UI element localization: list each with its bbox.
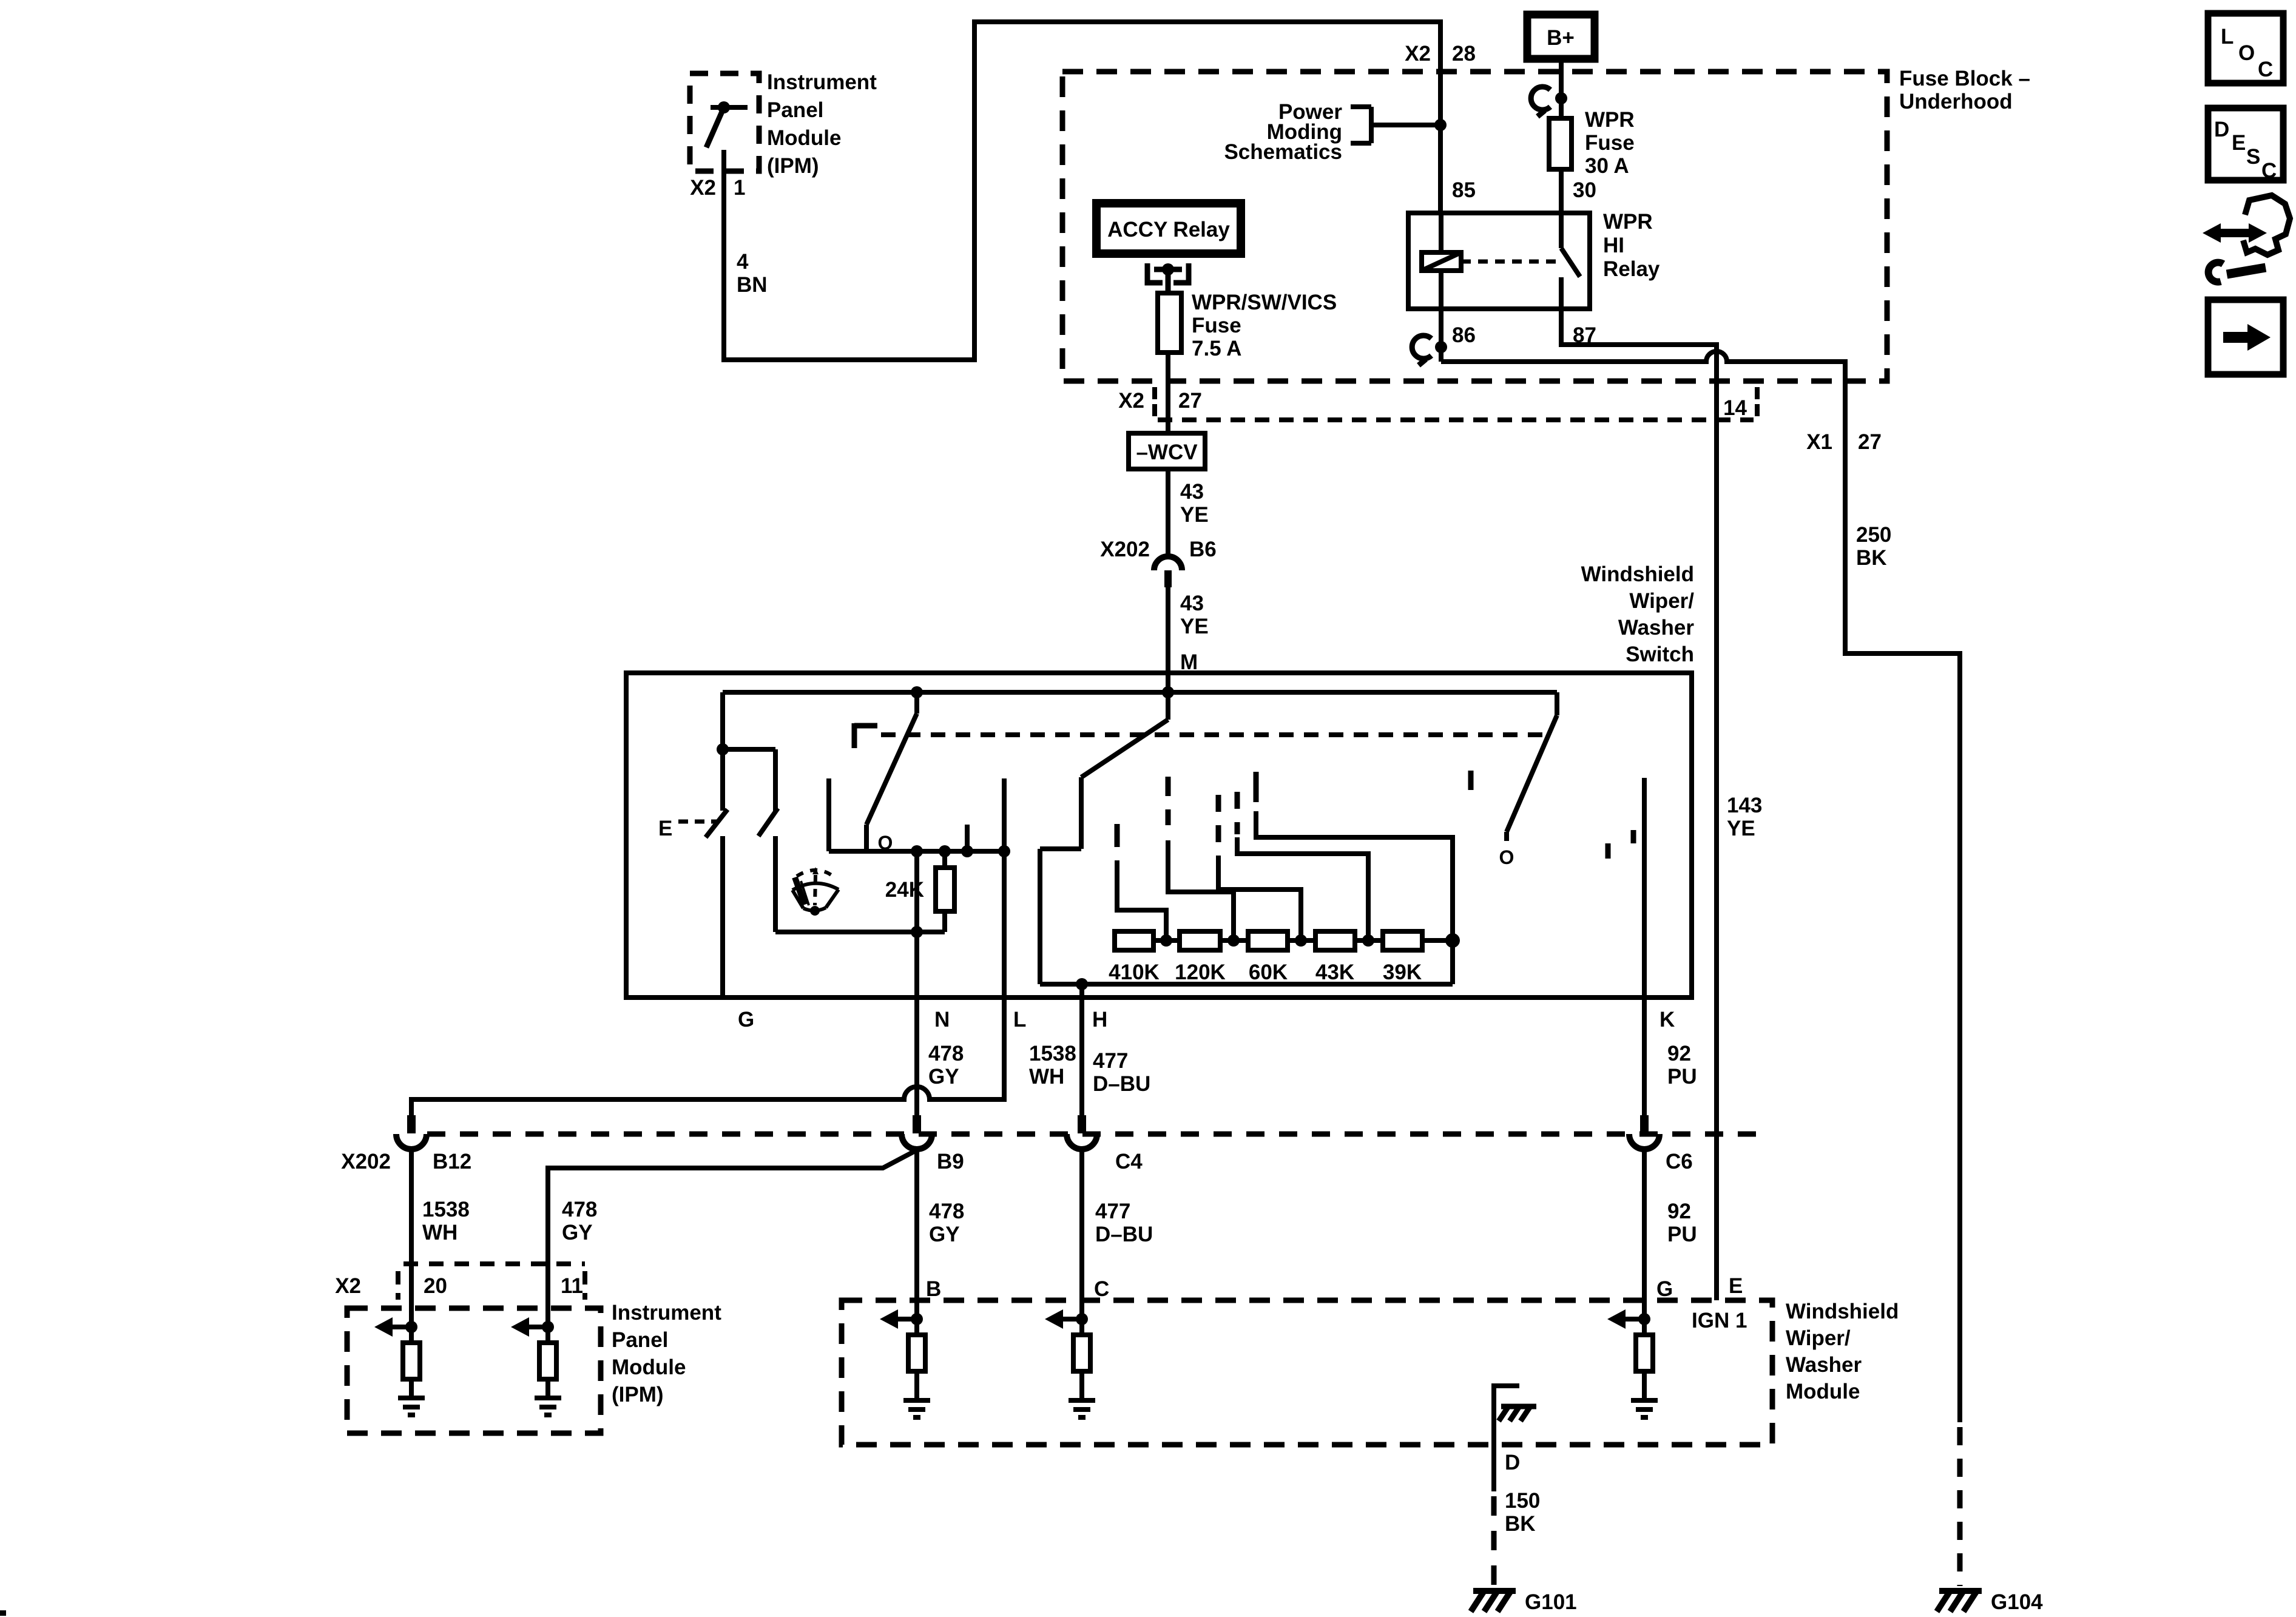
delay resistor ladder: [1115, 931, 1460, 984]
svg-text:L: L: [2221, 25, 2234, 49]
svg-text:S: S: [2246, 145, 2260, 169]
svg-text:N: N: [934, 1008, 950, 1031]
svg-text:B9: B9: [937, 1150, 964, 1173]
svg-text:30 A: 30 A: [1585, 154, 1629, 178]
svg-text:(IPM): (IPM): [612, 1383, 664, 1406]
wire L inside box: [1002, 778, 1007, 998]
wire fuse to -WCV: [1166, 353, 1170, 433]
svg-text:Washer: Washer: [1786, 1353, 1862, 1377]
label 1538 WH: [422, 1198, 470, 1244]
wire -WCV to X202 B6: [1166, 469, 1170, 555]
delay contact position 5: [1256, 772, 1453, 940]
page corner mark: [0, 1610, 6, 1616]
module input C: [1045, 1300, 1095, 1417]
svg-text:Panel: Panel: [767, 98, 823, 122]
module pin labels: [926, 1274, 1747, 1332]
svg-text:BK: BK: [1505, 1512, 1536, 1536]
power moding schematics bracket: [1351, 107, 1440, 143]
-WCV box: [1129, 433, 1205, 469]
svg-text:39K: 39K: [1383, 960, 1422, 984]
windshield wiper/washer switch box: [626, 673, 1692, 998]
wire K to C6: [1642, 998, 1647, 1119]
connector B9: [913, 1115, 921, 1133]
svg-text:24K: 24K: [885, 878, 924, 902]
svg-text:Fuse Block –: Fuse Block –: [1899, 67, 2030, 90]
label 478 GY: [562, 1198, 597, 1244]
svg-text:43: 43: [1180, 592, 1204, 615]
wire relay 87 output to 143 YE: [1561, 309, 1717, 1300]
wire B+ to WPR fuse: [1559, 59, 1564, 118]
svg-text:C: C: [2261, 159, 2277, 183]
svg-text:YE: YE: [1180, 615, 1209, 638]
label D 150 BK: [1505, 1451, 1540, 1536]
svg-text:Windshield: Windshield: [1786, 1300, 1899, 1323]
labels X2 27 14: [1118, 389, 1747, 420]
legend forward arrow box: [2208, 300, 2283, 374]
node on X2-28 wire: [1434, 119, 1447, 131]
svg-text:E: E: [658, 817, 672, 840]
wire C6 to module pin G: [1642, 1149, 1647, 1300]
N tap: [914, 851, 919, 932]
connector C6: [1640, 1115, 1649, 1133]
svg-text:X202: X202: [1100, 538, 1150, 561]
svg-text:C: C: [2258, 58, 2273, 81]
delay contact position 3: [1218, 795, 1301, 940]
svg-text:477: 477: [1093, 1049, 1128, 1073]
svg-text:G104: G104: [1991, 1590, 2043, 1614]
svg-text:30: 30: [1573, 178, 1596, 202]
svg-text:X2: X2: [690, 176, 716, 200]
label Windshield Wiper/Washer Switch: [1581, 562, 1695, 666]
svg-text:4: 4: [737, 250, 749, 274]
svg-text:HI: HI: [1603, 234, 1624, 257]
svg-text:WPR: WPR: [1585, 108, 1635, 132]
svg-text:O: O: [2238, 41, 2255, 65]
mist blade from bus: [866, 692, 917, 851]
svg-text:Wiper/: Wiper/: [1786, 1326, 1851, 1350]
svg-text:Washer: Washer: [1618, 616, 1695, 640]
svg-text:478: 478: [928, 1042, 964, 1065]
wire X2 28 to relay pin 85: [1438, 72, 1443, 213]
svg-text:Instrument: Instrument: [612, 1301, 721, 1325]
relay actuator dashed link: [1461, 260, 1557, 264]
pin 14 stub: [1755, 387, 1760, 416]
switch pin labels: [738, 1008, 1675, 1031]
delay contact position 2: [1168, 777, 1234, 940]
svg-text:Switch: Switch: [1626, 643, 1694, 666]
mechanical coupling dashed line: [854, 723, 1544, 748]
resistor 24K: [942, 851, 947, 868]
svg-text:G101: G101: [1525, 1590, 1577, 1614]
WPR fuse 30 A: [1549, 118, 1572, 169]
H rail: [1040, 982, 1453, 987]
labels X1 27: [1806, 430, 1882, 454]
svg-text:YE: YE: [1180, 503, 1209, 527]
svg-text:1: 1: [734, 176, 745, 200]
svg-text:BK: BK: [1856, 546, 1887, 570]
labels X2 28 at fuse block entry: [1405, 42, 1476, 66]
svg-text:G: G: [1656, 1277, 1673, 1301]
IPM input 20 load: [374, 1308, 425, 1415]
svg-text:92: 92: [1667, 1042, 1691, 1065]
svg-text:X1: X1: [1806, 430, 1832, 454]
svg-text:D–BU: D–BU: [1093, 1072, 1150, 1096]
module input B: [880, 1300, 930, 1417]
pin 27 stub: [1152, 387, 1157, 416]
svg-text:Module: Module: [612, 1355, 686, 1379]
svg-text:27: 27: [1858, 430, 1882, 454]
svg-text:H: H: [1092, 1008, 1107, 1031]
label Fuse Block - Underhood: [1899, 67, 2030, 113]
low speed contact row: [829, 849, 1004, 854]
label 43 YE: [1180, 480, 1209, 527]
svg-text:1538: 1538: [422, 1198, 470, 1221]
wire B9 to module pin B: [914, 1149, 919, 1300]
svg-text:86: 86: [1452, 323, 1476, 347]
svg-text:D: D: [2214, 118, 2229, 141]
svg-text:478: 478: [929, 1200, 964, 1223]
wash contact blade left (G side): [720, 749, 725, 811]
wire N inside box: [914, 932, 919, 998]
label 143 YE: [1727, 794, 1762, 840]
svg-text:Instrument: Instrument: [767, 70, 877, 94]
svg-text:27: 27: [1178, 389, 1202, 413]
wire H to C4: [1079, 998, 1084, 1119]
svg-text:B+: B+: [1547, 26, 1575, 50]
wire IPM pin 11 branch to B9: [548, 1151, 915, 1308]
connector X202 B12: [407, 1115, 416, 1133]
svg-text:Module: Module: [767, 126, 841, 150]
label M: [1180, 650, 1198, 674]
instrument panel module (IPM) source dashed box: [690, 73, 759, 171]
labels 85 30: [1452, 178, 1596, 202]
B+ box: [1527, 15, 1595, 59]
svg-text:477: 477: [1095, 1200, 1130, 1223]
wire labels above X202: [928, 1042, 1697, 1096]
svg-text:85: 85: [1452, 178, 1476, 202]
label WPR HI Relay: [1603, 210, 1660, 281]
wire K inside box: [1642, 778, 1647, 998]
svg-text:X2: X2: [1118, 389, 1144, 413]
legend LOC box: [2208, 13, 2283, 83]
svg-text:D: D: [1505, 1451, 1520, 1474]
svg-text:B6: B6: [1189, 538, 1217, 561]
wire fuse to relay pin 30: [1559, 169, 1564, 213]
svg-text:C6: C6: [1666, 1150, 1693, 1173]
wire C4 to module pin C: [1079, 1149, 1084, 1300]
delay blade: [1507, 692, 1557, 841]
label Power Moding Schematics: [1224, 100, 1342, 164]
svg-text:K: K: [1660, 1008, 1675, 1031]
switch common bus: [723, 690, 1557, 695]
IPM internal switch: [706, 101, 748, 171]
svg-text:410K: 410K: [1109, 960, 1160, 984]
svg-text:Relay: Relay: [1603, 257, 1660, 281]
svg-text:X2: X2: [335, 1274, 361, 1298]
ACCY relay box: [1096, 203, 1241, 254]
labels 410K 120K 60K 43K 39K: [1109, 960, 1422, 984]
svg-text:478: 478: [562, 1198, 597, 1221]
connector row X202 dotted line: [427, 1132, 1760, 1137]
svg-text:D–BU: D–BU: [1095, 1223, 1153, 1246]
relay coil: [1422, 252, 1461, 271]
svg-text:G: G: [738, 1008, 754, 1031]
fuse block underhood dashed box: [1062, 72, 1887, 381]
wire L to B12 with hop over N: [411, 998, 1004, 1119]
svg-text:Windshield: Windshield: [1581, 562, 1694, 586]
svg-text:Module: Module: [1786, 1380, 1860, 1403]
svg-text:X2: X2: [1405, 42, 1431, 66]
svg-text:150: 150: [1505, 1489, 1540, 1513]
label 4 BN: [737, 250, 768, 297]
ground G104: [1937, 1591, 1982, 1612]
high speed blade: [1040, 692, 1168, 984]
svg-text:C: C: [1094, 1277, 1109, 1301]
wire N to B9: [914, 998, 919, 1119]
wire B12 to IPM pin 20: [409, 1149, 414, 1308]
fuse block X2 connector row: [1158, 417, 1754, 422]
ground G101: [1471, 1591, 1516, 1612]
svg-text:43: 43: [1180, 480, 1204, 504]
IPM X2 pin header dotted box: [398, 1264, 585, 1300]
wash contact blade right: [758, 808, 778, 836]
WPR HI relay box: [1408, 213, 1590, 309]
connector X2 pin 1 labels: [690, 176, 745, 200]
legend DESC box: [2208, 108, 2283, 180]
svg-text:Wiper/: Wiper/: [1629, 589, 1694, 613]
svg-text:WH: WH: [422, 1221, 458, 1244]
module input G: [1607, 1300, 1658, 1417]
svg-text:GY: GY: [929, 1223, 960, 1246]
svg-text:Underhood: Underhood: [1899, 90, 2013, 113]
svg-text:X202: X202: [341, 1150, 391, 1173]
svg-text:ACCY Relay: ACCY Relay: [1107, 218, 1230, 241]
contact tick near delay blade: [1468, 771, 1474, 790]
wire 86 to X1-27 with hop over 143 wire: [1441, 351, 1960, 1422]
label 250 BK: [1856, 523, 1891, 570]
label E and dashed link: [658, 817, 672, 840]
instrument panel module (IPM) bottom dashed box: [347, 1308, 601, 1433]
label Instrument Panel Module (IPM): [767, 70, 877, 178]
svg-text:WPR/SW/VICS: WPR/SW/VICS: [1192, 291, 1337, 314]
label O delay contact: [1499, 846, 1514, 868]
svg-text:28: 28: [1452, 42, 1476, 66]
svg-text:14: 14: [1723, 396, 1747, 420]
svg-text:C4: C4: [1115, 1150, 1143, 1173]
wiper park icon: [792, 867, 839, 916]
svg-text:Panel: Panel: [612, 1328, 668, 1352]
svg-text:143: 143: [1727, 794, 1762, 817]
labels 86 87: [1452, 323, 1596, 347]
ACCY relay contact clip: [1147, 263, 1189, 293]
connector C4: [1078, 1115, 1086, 1133]
svg-text:92: 92: [1667, 1200, 1691, 1223]
label O low contact: [878, 832, 893, 854]
svg-text:YE: YE: [1727, 817, 1755, 840]
svg-text:(IPM): (IPM): [767, 154, 819, 178]
svg-text:B: B: [926, 1277, 941, 1301]
svg-text:Fuse: Fuse: [1585, 131, 1635, 155]
svg-text:60K: 60K: [1249, 960, 1288, 984]
delay contact position 4: [1237, 792, 1368, 940]
svg-text:GY: GY: [562, 1221, 593, 1244]
relay switch: [1561, 213, 1580, 309]
windshield wiper/washer module dashed box: [842, 1300, 1772, 1445]
delay contact position 1: [1117, 824, 1166, 940]
svg-text:11: 11: [561, 1274, 583, 1298]
fuse clip at 86: [1412, 336, 1431, 359]
svg-text:Fuse: Fuse: [1192, 314, 1241, 337]
svg-text:WH: WH: [1029, 1065, 1064, 1089]
svg-text:43K: 43K: [1315, 960, 1354, 984]
svg-text:L: L: [1013, 1008, 1026, 1031]
wire to G101: [1491, 1496, 1497, 1586]
svg-text:–WCV: –WCV: [1136, 441, 1198, 464]
svg-text:E: E: [1729, 1274, 1743, 1298]
svg-text:7.5 A: 7.5 A: [1192, 337, 1241, 360]
module internal ground D: [1494, 1386, 1536, 1491]
svg-text:IGN 1: IGN 1: [1692, 1309, 1747, 1332]
IPM input 11 load: [511, 1308, 561, 1415]
svg-text:PU: PU: [1667, 1065, 1697, 1089]
wire 4 BN from IPM: [724, 22, 1440, 360]
svg-text:250: 250: [1856, 523, 1891, 547]
wire B6 to switch pin M: [1166, 587, 1170, 692]
svg-text:BN: BN: [737, 273, 768, 297]
fuse clip at B+ feed: [1531, 87, 1550, 110]
legend schematic/wrench icon: [2203, 195, 2290, 282]
park return line: [775, 930, 945, 934]
svg-text:E: E: [2232, 131, 2246, 155]
svg-text:WPR: WPR: [1603, 210, 1653, 234]
svg-text:120K: 120K: [1175, 960, 1226, 984]
svg-text:1538: 1538: [1029, 1042, 1076, 1065]
connector X202 B6: [1154, 556, 1182, 570]
wire to G104: [1957, 1427, 1963, 1586]
svg-text:B12: B12: [433, 1150, 471, 1173]
WPR/SW/VICS fuse 7.5 A: [1158, 293, 1181, 353]
svg-text:O: O: [1499, 846, 1514, 868]
wire relay 86 output: [1439, 309, 1443, 362]
off position ticks: [1606, 843, 1611, 859]
svg-text:20: 20: [424, 1274, 447, 1298]
svg-text:GY: GY: [928, 1065, 959, 1089]
svg-text:Schematics: Schematics: [1224, 140, 1342, 164]
label 43 YE: [1180, 592, 1209, 638]
wash switch branch: [720, 692, 725, 749]
svg-text:PU: PU: [1667, 1223, 1697, 1246]
